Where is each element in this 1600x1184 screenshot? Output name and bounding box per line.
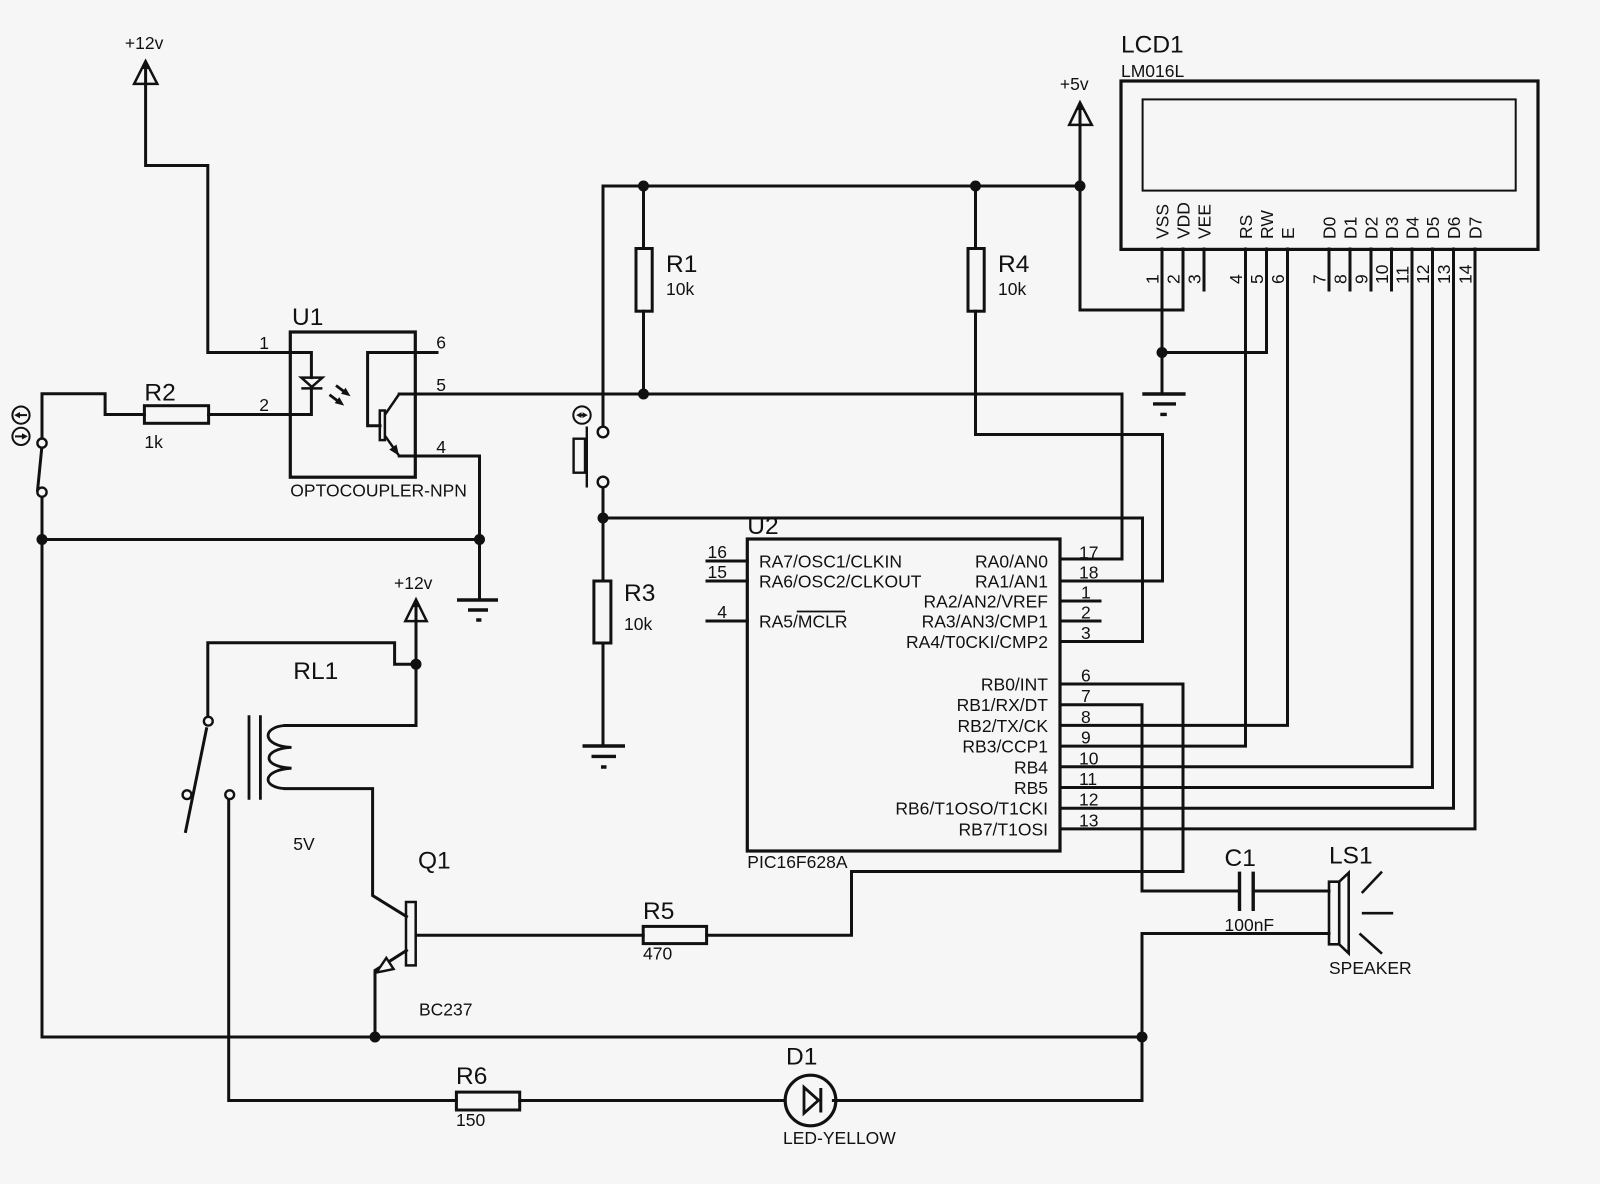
svg-text:+5v: +5v — [1060, 74, 1089, 94]
svg-text:LM016L: LM016L — [1121, 61, 1185, 81]
svg-text:RA1/AN1: RA1/AN1 — [975, 572, 1048, 592]
svg-text:1: 1 — [259, 333, 269, 353]
svg-text:10: 10 — [1079, 748, 1099, 768]
svg-text:17: 17 — [1079, 543, 1098, 563]
svg-text:1k: 1k — [144, 432, 163, 452]
svg-text:R5: R5 — [643, 898, 674, 925]
svg-text:D1: D1 — [1341, 217, 1361, 239]
svg-text:6: 6 — [1081, 666, 1091, 686]
svg-text:RB3/CCP1: RB3/CCP1 — [962, 737, 1048, 757]
svg-text:BC237: BC237 — [419, 1000, 473, 1020]
svg-text:LED-YELLOW: LED-YELLOW — [783, 1128, 896, 1148]
svg-text:RA2/AN2/VREF: RA2/AN2/VREF — [924, 592, 1048, 612]
svg-text:11: 11 — [1079, 769, 1097, 789]
svg-text:Q1: Q1 — [418, 848, 451, 875]
svg-text:4: 4 — [1226, 274, 1246, 284]
svg-text:RB7/T1OSI: RB7/T1OSI — [959, 820, 1048, 840]
svg-text:LCD1: LCD1 — [1121, 32, 1184, 59]
svg-text:RB6/T1OSO/T1CKI: RB6/T1OSO/T1CKI — [895, 799, 1048, 819]
svg-text:LS1: LS1 — [1329, 843, 1373, 870]
svg-text:100nF: 100nF — [1225, 915, 1275, 935]
svg-text:RB2/TX/CK: RB2/TX/CK — [958, 716, 1049, 736]
svg-text:RA0/AN0: RA0/AN0 — [975, 552, 1048, 572]
svg-text:RA4/T0CKI/CMP2: RA4/T0CKI/CMP2 — [906, 632, 1048, 652]
svg-text:RA3/AN3/CMP1: RA3/AN3/CMP1 — [922, 612, 1048, 632]
svg-text:2: 2 — [1081, 603, 1091, 623]
svg-text:RB4: RB4 — [1014, 758, 1048, 778]
svg-text:D5: D5 — [1423, 217, 1443, 239]
svg-text:11: 11 — [1393, 266, 1413, 284]
svg-text:D4: D4 — [1403, 216, 1423, 239]
svg-text:9: 9 — [1081, 728, 1091, 748]
svg-text:2: 2 — [259, 395, 269, 415]
svg-text:D3: D3 — [1382, 217, 1402, 239]
svg-text:RW: RW — [1257, 210, 1277, 239]
svg-text:U2: U2 — [747, 513, 778, 540]
svg-text:470: 470 — [643, 944, 672, 964]
svg-text:PIC16F628A: PIC16F628A — [747, 852, 848, 872]
svg-text:4: 4 — [436, 437, 446, 457]
svg-text:4: 4 — [717, 602, 727, 622]
svg-text:16: 16 — [708, 542, 727, 562]
svg-text:RA7/OSC1/CLKIN: RA7/OSC1/CLKIN — [759, 552, 902, 572]
svg-text:5: 5 — [1247, 274, 1267, 284]
svg-text:VEE: VEE — [1195, 204, 1215, 239]
svg-text:6: 6 — [1268, 274, 1288, 284]
svg-text:10k: 10k — [624, 614, 652, 634]
svg-text:3: 3 — [1185, 274, 1205, 284]
svg-text:SPEAKER: SPEAKER — [1329, 958, 1412, 978]
svg-text:VDD: VDD — [1174, 202, 1194, 239]
svg-text:R1: R1 — [666, 251, 697, 278]
svg-text:6: 6 — [436, 333, 446, 353]
svg-text:D6: D6 — [1444, 217, 1464, 239]
svg-text:C1: C1 — [1225, 845, 1256, 872]
svg-text:R6: R6 — [456, 1063, 487, 1090]
svg-text:150: 150 — [456, 1110, 485, 1130]
svg-text:RL1: RL1 — [293, 658, 338, 685]
svg-text:RA6/OSC2/CLKOUT: RA6/OSC2/CLKOUT — [759, 572, 922, 592]
svg-text:R3: R3 — [624, 580, 655, 607]
svg-text:RS: RS — [1236, 215, 1256, 239]
svg-text:E: E — [1278, 227, 1298, 239]
svg-text:2: 2 — [1164, 274, 1184, 284]
svg-text:R2: R2 — [144, 380, 175, 407]
svg-text:RB1/RX/DT: RB1/RX/DT — [957, 695, 1049, 715]
svg-text:7: 7 — [1081, 686, 1091, 706]
svg-text:U1: U1 — [292, 304, 323, 331]
svg-text:10k: 10k — [666, 279, 694, 299]
svg-text:9: 9 — [1352, 274, 1372, 284]
svg-text:10k: 10k — [998, 279, 1026, 299]
svg-text:D0: D0 — [1320, 216, 1340, 239]
svg-text:1: 1 — [1143, 274, 1163, 284]
svg-text:18: 18 — [1079, 563, 1098, 583]
svg-text:14: 14 — [1456, 264, 1476, 284]
svg-text:RA5/MCLR: RA5/MCLR — [759, 612, 848, 632]
svg-text:5: 5 — [436, 375, 446, 395]
svg-text:1: 1 — [1081, 583, 1091, 603]
svg-text:OPTOCOUPLER-NPN: OPTOCOUPLER-NPN — [290, 481, 467, 501]
svg-text:12: 12 — [1079, 790, 1098, 810]
svg-text:13: 13 — [1079, 810, 1098, 830]
svg-text:15: 15 — [708, 562, 727, 582]
svg-text:8: 8 — [1081, 707, 1091, 727]
svg-text:D7: D7 — [1466, 217, 1486, 239]
svg-text:D2: D2 — [1362, 217, 1382, 239]
svg-text:12: 12 — [1413, 265, 1433, 284]
svg-text:8: 8 — [1331, 274, 1351, 284]
svg-text:10: 10 — [1372, 264, 1392, 284]
svg-text:RB0/INT: RB0/INT — [981, 675, 1048, 695]
svg-text:D1: D1 — [786, 1044, 817, 1071]
svg-text:VSS: VSS — [1153, 204, 1173, 239]
svg-text:R4: R4 — [998, 251, 1029, 278]
svg-text:+12v: +12v — [125, 33, 164, 53]
svg-text:RB5: RB5 — [1014, 778, 1048, 798]
svg-text:3: 3 — [1081, 623, 1091, 643]
svg-text:13: 13 — [1434, 265, 1454, 284]
svg-text:+12v: +12v — [394, 573, 433, 593]
svg-text:7: 7 — [1310, 274, 1330, 284]
svg-text:5V: 5V — [293, 834, 315, 854]
